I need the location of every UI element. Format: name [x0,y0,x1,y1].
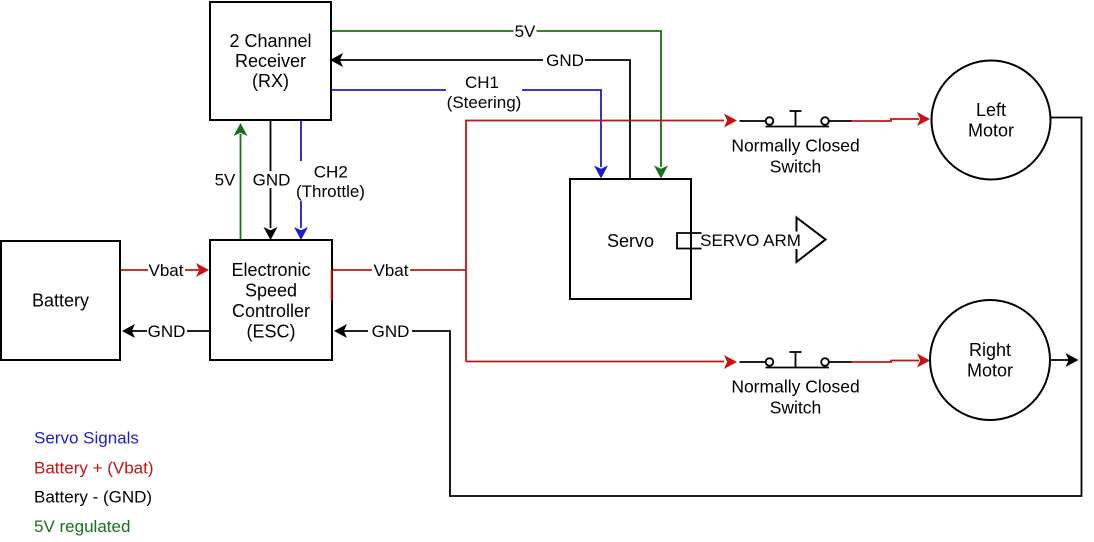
svg-text:Vbat: Vbat [149,261,184,280]
svg-text:Battery: Battery [32,291,89,311]
svg-text:Servo: Servo [607,231,654,251]
svg-text:SERVO ARM: SERVO ARM [700,231,801,250]
svg-text:(ESC): (ESC) [247,322,296,342]
svg-text:2 Channel: 2 Channel [229,31,311,51]
svg-text:(RX): (RX) [252,71,289,91]
svg-text:GND: GND [148,322,186,341]
svg-text:GND: GND [546,51,584,70]
svg-text:Speed: Speed [245,281,297,301]
svg-text:Motor: Motor [967,361,1013,381]
svg-text:Left: Left [976,100,1006,120]
svg-text:Right: Right [969,340,1011,360]
svg-text:5V regulated: 5V regulated [34,517,130,536]
svg-text:Controller: Controller [232,301,310,321]
svg-text:Motor: Motor [968,121,1014,141]
svg-text:Switch: Switch [770,398,822,418]
svg-text:CH2: CH2 [314,163,348,182]
svg-text:(Throttle): (Throttle) [296,182,365,201]
svg-text:Normally Closed: Normally Closed [731,377,859,397]
svg-text:Receiver: Receiver [235,51,306,71]
svg-text:Normally Closed: Normally Closed [731,136,859,156]
svg-text:Electronic: Electronic [231,260,310,280]
svg-text:Battery + (Vbat): Battery + (Vbat) [34,459,154,478]
svg-text:Servo Signals: Servo Signals [34,429,139,448]
svg-text:5V: 5V [215,171,236,190]
svg-text:5V: 5V [515,22,536,41]
svg-text:Switch: Switch [770,157,822,177]
svg-text:CH1: CH1 [465,73,499,92]
svg-text:Vbat: Vbat [374,261,409,280]
svg-text:GND: GND [372,322,410,341]
svg-text:GND: GND [253,171,291,190]
svg-text:(Steering): (Steering) [447,93,522,112]
svg-text:Battery - (GND): Battery - (GND) [34,488,152,507]
